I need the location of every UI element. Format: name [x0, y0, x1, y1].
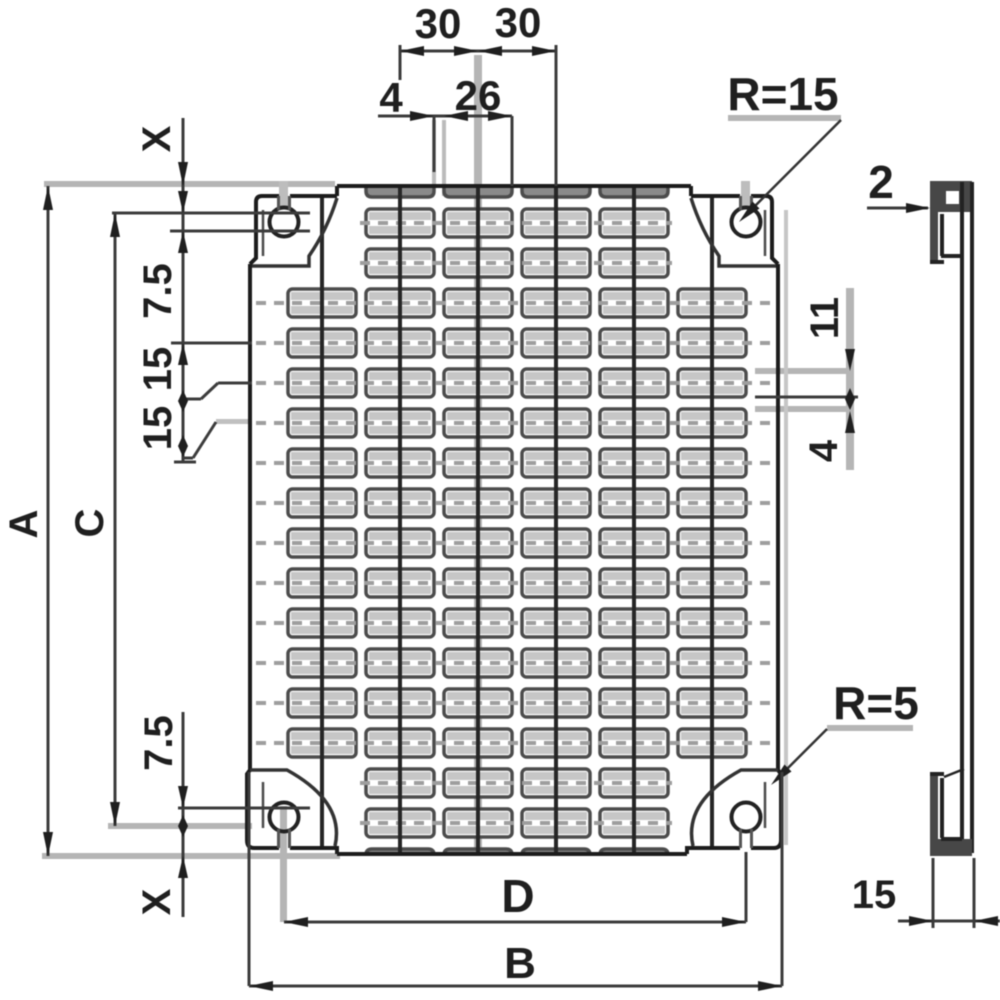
svg-text:B: B — [504, 939, 536, 988]
svg-text:X: X — [135, 888, 179, 915]
arrows 30/30 — [400, 46, 424, 56]
extension line x=434 — [433, 116, 436, 172]
arrows D — [284, 917, 308, 927]
slot row 1 (cut by top edge) — [366, 186, 434, 197]
R=5 arrowhead — [771, 765, 792, 786]
slot row 4 — [288, 289, 356, 317]
svg-text:X: X — [135, 125, 179, 152]
svg-text:30: 30 — [495, 0, 542, 46]
gap extension line x=444 (gray) — [442, 120, 446, 196]
thickness dimension line — [867, 207, 928, 210]
arrows 15 — [909, 916, 933, 926]
extension line x=400 — [399, 45, 402, 80]
arrows A — [43, 186, 53, 210]
arrow tip at top edge — [178, 162, 188, 186]
dimension line B — [249, 985, 782, 988]
row reference y=231 — [170, 230, 310, 233]
dimension line 15 — [898, 920, 1000, 923]
slot row 5 — [288, 329, 356, 357]
slot row 15 — [288, 729, 356, 757]
slot row 12 — [288, 609, 356, 637]
slot row 16 — [366, 769, 434, 797]
svg-text:26: 26 — [455, 72, 502, 119]
arrow at y=808 — [178, 786, 188, 808]
svg-text:7.5: 7.5 — [137, 715, 181, 771]
slot row 18 (cut by bottom edge) — [366, 849, 434, 855]
hole centerline reference y=213 — [112, 212, 310, 215]
top-right corner fold line — [691, 198, 776, 266]
arrow at y=343 — [178, 343, 188, 365]
row reference y=343 — [171, 342, 252, 345]
svg-text:11: 11 — [803, 297, 847, 339]
R=15 leader shoulder (gray) — [728, 115, 841, 121]
svg-text:15: 15 — [852, 873, 897, 917]
right edge highlight (gray) — [784, 210, 788, 845]
svg-text:C: C — [68, 509, 112, 538]
slot row 8 — [288, 449, 356, 477]
bottom hole centerline y=808 — [178, 807, 310, 810]
top-left keyhole slot highlight (gray) — [279, 181, 288, 209]
arrow at y=213 — [178, 191, 188, 213]
slot row 2 — [366, 209, 434, 237]
bottom-right ear inner wall — [764, 782, 767, 828]
arrows 4/26 — [410, 111, 434, 121]
slot row 9 — [288, 489, 356, 517]
top-left ear inner wall — [262, 210, 265, 256]
slot row 14 — [288, 689, 356, 717]
11/4 dimension axis (gray) — [846, 288, 854, 470]
svg-text:15: 15 — [136, 406, 180, 451]
slot row 13 — [288, 649, 356, 677]
extension line x=512 — [511, 116, 514, 186]
bottom 7.5/X dimension axis — [182, 712, 185, 917]
row7 jog reference (gray) — [216, 419, 252, 424]
jog to row7 — [183, 457, 193, 460]
slot bottom reference y=397 — [755, 396, 858, 399]
svg-text:D: D — [501, 870, 534, 922]
svg-text:15: 15 — [136, 347, 180, 392]
hole D extension left (gray) — [280, 806, 287, 922]
top-right keyhole slot highlight (gray) — [741, 181, 750, 209]
R=15 leader line — [748, 120, 841, 213]
diamond at y=826 — [178, 815, 188, 837]
svg-text:R=15: R=15 — [727, 68, 838, 120]
slot row 10 — [288, 529, 356, 557]
R=15 arrowhead — [739, 202, 760, 223]
row centerlines (gray dashed) — [360, 221, 672, 225]
bottom-right mounting keyhole — [732, 803, 761, 832]
dimension line D — [284, 921, 746, 924]
bottom-left mounting keyhole — [270, 803, 299, 832]
svg-text:30: 30 — [415, 0, 462, 47]
side profile view — [930, 181, 972, 212]
slot row 7 — [288, 409, 356, 437]
plate outline with corner ears — [247, 186, 781, 854]
jog to row6 — [183, 398, 201, 401]
extension line B left — [248, 772, 251, 986]
R=5 leader shoulder (gray) — [827, 725, 913, 731]
R=5 leader line — [779, 729, 827, 777]
diamond 11/4 — [845, 388, 855, 410]
diamond at y=401 — [178, 390, 188, 412]
top-right ear inner wall — [764, 210, 767, 256]
arrows C — [110, 213, 120, 237]
arrow 11 top — [845, 349, 855, 371]
arrow 2 — [906, 203, 930, 213]
svg-text:2: 2 — [868, 156, 894, 208]
vertical perforation grid lines — [320, 196, 324, 848]
extension line B right — [781, 772, 784, 986]
dimension axis A — [47, 186, 50, 856]
svg-text:4: 4 — [802, 439, 846, 462]
bottom-right corner fold line (R=5) — [692, 770, 778, 846]
slot row 3 — [366, 249, 434, 277]
slot row 17 — [366, 809, 434, 837]
dimension line 30/30 — [400, 50, 556, 53]
extension line x=556 — [555, 45, 558, 186]
slot row 11 — [288, 569, 356, 597]
svg-text:7.5: 7.5 — [136, 263, 180, 319]
svg-text:A: A — [2, 510, 46, 539]
axis end tick — [174, 461, 196, 464]
center column highlight (gray) — [474, 55, 482, 853]
arrow at y=856 — [178, 856, 188, 878]
X/7.5/15 dimension axis — [182, 118, 185, 462]
svg-text:R=5: R=5 — [833, 677, 919, 729]
gap extension line x=434 (gray) — [432, 120, 436, 186]
top edge extension line (gray) — [44, 181, 335, 187]
dimension line 4/26 — [378, 115, 512, 118]
arrow 4 bottom — [845, 411, 855, 433]
extension lines 15 — [932, 858, 935, 928]
top-left corner fold line — [252, 198, 337, 266]
bottom edge extension (gray) — [42, 853, 340, 859]
slot top reference y=371 (gray) — [755, 368, 846, 374]
bottom-left corner fold line (R=5) — [250, 770, 336, 846]
dimension axis C — [114, 213, 117, 826]
arrow at y=231 — [178, 231, 188, 253]
top-right mounting keyhole — [732, 208, 761, 237]
extension line D right — [745, 852, 748, 922]
svg-text:4: 4 — [379, 74, 403, 121]
arrows B — [249, 981, 273, 991]
row reference y=826 (gray) — [108, 823, 252, 829]
slot gap reference y=409 (gray) — [755, 406, 846, 412]
top-left mounting keyhole — [270, 208, 299, 237]
bottom-left ear inner wall — [262, 782, 265, 828]
slot row 6 — [288, 369, 356, 397]
diamond at y=446 — [178, 435, 188, 457]
